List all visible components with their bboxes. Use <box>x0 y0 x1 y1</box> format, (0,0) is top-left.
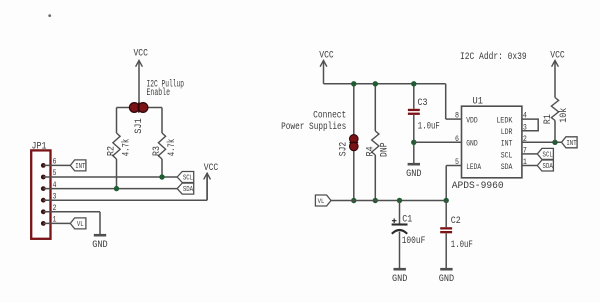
svg-text:INT: INT <box>75 163 85 171</box>
svg-text:4: 4 <box>53 180 57 190</box>
resistor R1 <box>551 98 558 143</box>
label I2C Pullup Enable <box>147 79 185 100</box>
label C3 <box>418 98 428 109</box>
label SJ1 <box>134 118 145 134</box>
svg-text:SCL: SCL <box>501 150 513 160</box>
label R4 <box>366 146 377 156</box>
net tag INT (right) <box>562 137 578 148</box>
connector JP1 pin 6 stub wire <box>43 164 59 166</box>
power symbol VCC (left connector) <box>204 163 219 200</box>
svg-text:C3: C3 <box>418 98 428 109</box>
connector JP1 pin 5 stub wire <box>43 176 59 178</box>
connector JP1 body <box>31 150 50 238</box>
label C1 <box>402 214 412 225</box>
svg-text:Power Supplies: Power Supplies <box>281 121 346 133</box>
junction C3-GND pin <box>411 140 416 145</box>
svg-text:Enable: Enable <box>147 87 171 99</box>
wire U1 LEDA pin5 <box>446 166 461 201</box>
U1 pin number 1 <box>523 157 527 167</box>
svg-text:SJ1: SJ1 <box>134 118 145 134</box>
wire C1 bottom lead <box>399 232 401 269</box>
label C3 value 1.0uF <box>418 121 440 132</box>
U1 pin number 5 <box>455 157 459 167</box>
label R4 value DNP <box>379 142 390 157</box>
svg-text:VCC: VCC <box>133 49 148 60</box>
svg-text:8: 8 <box>455 111 459 121</box>
svg-text:LDR: LDR <box>501 127 513 137</box>
svg-text:SCL: SCL <box>183 175 193 183</box>
wire pin2 to GND <box>60 212 101 235</box>
svg-text:SDA: SDA <box>183 186 194 194</box>
svg-text:GND: GND <box>92 240 107 251</box>
wire net SCL (left) <box>60 176 178 178</box>
svg-text:VCC: VCC <box>204 163 219 174</box>
label C2 <box>451 216 461 227</box>
wire VL bottom rail <box>331 200 446 202</box>
svg-text:C1: C1 <box>402 214 412 225</box>
pin number 6 <box>53 157 57 167</box>
ground symbol (C3) <box>406 164 421 180</box>
svg-text:INT: INT <box>501 139 513 149</box>
label R1 <box>543 114 554 124</box>
label C1 value 100uF <box>402 236 426 247</box>
connector JP1 label <box>32 141 47 152</box>
resistor R2 <box>113 108 120 189</box>
wire SJ1 horizontal <box>117 107 163 109</box>
wire pin3 to VCC <box>60 173 208 200</box>
svg-text:5: 5 <box>53 168 57 178</box>
svg-text:VCC: VCC <box>319 50 334 61</box>
U1 pin number 7 <box>523 146 527 156</box>
svg-text:VDD: VDD <box>466 116 478 126</box>
junction C3 top <box>411 81 416 86</box>
svg-text:1: 1 <box>53 215 57 225</box>
pin number 4 <box>53 180 57 190</box>
power symbol VCC (pullups) <box>133 49 148 67</box>
net tag SCL (left) <box>177 172 194 183</box>
wire C2 bottom lead <box>445 233 447 268</box>
U1 pin name SCL <box>501 150 513 160</box>
wire C3 top lead <box>413 84 415 109</box>
solder jumper SJ1 <box>129 102 148 112</box>
wire U1 SDA pin1 <box>522 165 537 167</box>
net tag VL (supply) <box>315 195 331 206</box>
junction R1-INT <box>552 140 557 145</box>
U1 pin name VDD <box>466 116 478 126</box>
junction R3-SCL <box>159 174 164 179</box>
svg-text:R3: R3 <box>152 146 163 156</box>
svg-text:VL: VL <box>318 198 325 205</box>
U1 pin number 3 <box>523 122 527 132</box>
connector JP1 pin 1 stub wire <box>43 222 59 224</box>
wire SJ2 vertical <box>353 84 355 201</box>
net tag SCL (right) <box>537 148 553 159</box>
capacitor C3 <box>408 109 420 115</box>
connector JP1 pin 2 pad <box>41 209 46 214</box>
pin number 2 <box>53 203 57 213</box>
label SJ2 <box>339 142 350 157</box>
pin number 5 <box>53 168 57 178</box>
svg-text:6: 6 <box>455 134 459 144</box>
svg-text:10k: 10k <box>558 108 570 123</box>
solder jumper SJ2 <box>349 135 358 151</box>
ground symbol (left) <box>92 235 107 251</box>
net tag INT (left) <box>70 160 86 171</box>
wire C2 top lead <box>445 201 447 228</box>
svg-text:GND: GND <box>406 169 421 180</box>
svg-text:VCC: VCC <box>550 50 565 61</box>
stray dot artifact <box>48 14 51 17</box>
svg-text:1.0uF: 1.0uF <box>451 240 473 251</box>
net tag SDA (left) <box>177 183 194 194</box>
junction C1 top <box>397 198 402 203</box>
resistor R3 <box>158 108 165 178</box>
junction SJ2 top <box>351 81 356 86</box>
U1 pin name SDA <box>501 162 513 172</box>
net tag SDA (right) <box>537 160 553 171</box>
resistor R4 <box>372 84 379 201</box>
connector JP1 pin 3 pad <box>41 198 46 203</box>
label Connect Power Supplies <box>281 110 346 133</box>
U1 pin name INT <box>501 139 513 149</box>
svg-text:4.7k: 4.7k <box>166 139 178 157</box>
svg-text:APDS-9960: APDS-9960 <box>452 181 504 192</box>
wire VCC top rail <box>324 84 462 119</box>
connector JP1 pin 2 stub wire <box>43 211 59 213</box>
svg-text:I2C Addr: 0x39: I2C Addr: 0x39 <box>460 51 527 63</box>
svg-text:C2: C2 <box>451 216 461 227</box>
wire U1 SCL pin7 <box>522 153 537 155</box>
svg-text:VL: VL <box>77 221 84 229</box>
svg-text:3: 3 <box>53 191 57 201</box>
U1 pin name GND <box>466 139 478 149</box>
connector JP1 pin 3 stub wire <box>43 199 59 201</box>
svg-text:R4: R4 <box>366 146 377 156</box>
U1 pin name LEDA <box>466 162 482 172</box>
label R2 <box>107 146 118 156</box>
label I2C Addr: 0x39 <box>460 51 527 63</box>
svg-text:SDA: SDA <box>543 163 554 171</box>
wire LEDK-LDR loop <box>522 119 538 131</box>
IC U1 body <box>462 106 522 178</box>
connector JP1 pin 1 pad <box>41 221 46 226</box>
svg-text:GND: GND <box>392 274 407 285</box>
svg-text:R2: R2 <box>107 146 118 156</box>
IC U1 label <box>473 97 483 108</box>
ground symbol (C2) <box>439 269 454 285</box>
svg-text:5: 5 <box>455 157 459 167</box>
junction SJ2 bottom <box>351 198 356 203</box>
U1 pin number 2 <box>523 134 527 144</box>
svg-text:LEDA: LEDA <box>466 162 482 172</box>
power symbol VCC (R1) <box>550 50 565 97</box>
label R3 value 4.7k <box>166 139 178 157</box>
connector JP1 pin 6 pad <box>41 163 46 168</box>
svg-text:4.7k: 4.7k <box>121 139 133 157</box>
pin number 3 <box>53 191 57 201</box>
U1 pin name LDR <box>501 127 513 137</box>
capacitor C2 <box>440 227 452 233</box>
label R1 value 10k <box>558 108 570 123</box>
svg-text:GND: GND <box>439 274 454 285</box>
wire VCC stem to SJ1 <box>138 61 140 108</box>
svg-text:Connect: Connect <box>313 110 346 121</box>
power symbol VCC (supply left) <box>319 50 334 84</box>
wire net SDA (left) <box>60 188 178 190</box>
net tag VL (left) <box>70 218 86 229</box>
svg-text:100uF: 100uF <box>402 236 426 247</box>
ground symbol (C1) <box>392 269 407 285</box>
U1 pin number 8 <box>455 111 459 121</box>
pin number 1 <box>53 215 57 225</box>
junction R2-SDA <box>114 186 119 191</box>
svg-text:GND: GND <box>466 139 478 149</box>
svg-text:SDA: SDA <box>501 162 513 172</box>
svg-text:SJ2: SJ2 <box>339 142 350 157</box>
IC U1 value APDS-9960 <box>452 181 504 192</box>
U1 pin number 4 <box>523 111 527 121</box>
wire C3 bottom lead <box>413 115 415 163</box>
svg-text:DNP: DNP <box>379 142 390 157</box>
label R2 value 4.7k <box>121 139 133 157</box>
connector JP1 pin 5 pad <box>41 175 46 180</box>
svg-text:1.0uF: 1.0uF <box>418 121 440 132</box>
wire C1 top lead <box>399 201 401 225</box>
connector JP1 pin 4 pad <box>41 186 46 191</box>
junction R4 bottom <box>373 198 378 203</box>
wire pin6 to INT tag <box>60 164 71 166</box>
svg-text:LEDK: LEDK <box>496 116 513 126</box>
connector JP1 pin 4 stub wire <box>43 188 59 190</box>
wire U1 GND pin6 <box>414 141 462 143</box>
svg-text:INT: INT <box>566 140 576 148</box>
wire U1 INT pin2 to tag <box>522 141 562 143</box>
label C1 plus sign <box>392 218 397 223</box>
svg-text:2: 2 <box>53 203 57 213</box>
svg-text:R1: R1 <box>543 114 554 124</box>
U1 pin number 6 <box>455 134 459 144</box>
svg-text:6: 6 <box>53 157 57 167</box>
junction C2 top <box>444 198 449 203</box>
svg-text:SCL: SCL <box>543 152 553 160</box>
U1 pin name LEDK <box>496 116 513 126</box>
wire pin1 to VL tag <box>60 222 71 224</box>
label C2 value 1.0uF <box>451 240 473 251</box>
junction R4 top <box>373 81 378 86</box>
label R3 <box>152 146 163 156</box>
capacitor C1 polarized <box>392 225 408 234</box>
